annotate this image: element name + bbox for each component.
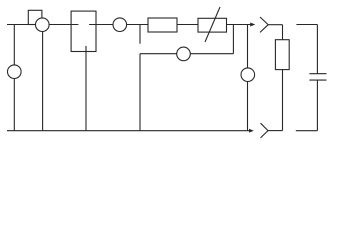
wire left vertical branch: [13, 25, 15, 131]
wire middle branch right vertical: [232, 25, 234, 54]
wire bottom right segment: [296, 130, 318, 132]
arrowhead top rail: [250, 23, 255, 27]
wire vertical through meter A4: [247, 25, 249, 131]
connector chevron bottom: [261, 123, 269, 138]
wire right top vertical: [316, 25, 318, 74]
wire middle branch horizontal: [140, 53, 233, 55]
box U1 large: [71, 11, 96, 51]
meter A1 circle: [36, 18, 50, 32]
capacitor C1 top plate: [309, 73, 326, 75]
wire vertical through resistor R3: [282, 25, 284, 131]
wire bottom rail: [7, 130, 249, 132]
meter A4 circle: [241, 68, 255, 82]
connector chevron top: [260, 17, 268, 32]
resistor R1: [148, 18, 177, 32]
resistor R3 vertical: [275, 40, 289, 70]
capacitor C1 bottom plate: [309, 79, 326, 81]
switch S1 upper segment: [139, 25, 141, 44]
wire from top chevron: [268, 24, 282, 26]
wire drop from box U1: [85, 46, 87, 131]
wire drop from meter A1: [42, 25, 44, 131]
arrowhead bottom rail: [249, 129, 254, 133]
wire top right segment: [296, 24, 317, 26]
wire right bottom vertical: [316, 80, 318, 131]
source G1 circle: [8, 65, 22, 79]
meter A2 circle: [113, 18, 127, 32]
wire from bottom chevron: [268, 130, 283, 132]
adjustment stroke of R2: [205, 7, 220, 42]
wire top rail left segment: [7, 24, 78, 26]
meter A3 circle: [177, 47, 191, 61]
switch S1 lower segment / wire to bottom rail: [139, 54, 141, 131]
box B1 small top-left: [28, 10, 42, 24]
resistor R2 adjustable: [198, 18, 227, 32]
wire top rail right segment: [89, 24, 250, 26]
